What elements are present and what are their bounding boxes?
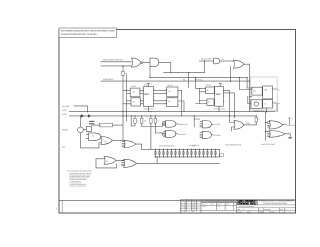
rev table text [181,200,196,213]
wire u6-u7 d [154,103,167,105]
svg-text:25000080 WITH ARTWORK REV C OR: 25000080 WITH ARTWORK REV C OR HIGHER [61,33,97,36]
wire u10 left [247,88,252,104]
svg-text:RD CLK 7474: RD CLK 7474 [144,107,154,110]
svg-text:J SMITH: J SMITH [202,206,207,208]
wire u11 right stub [273,89,278,112]
U10 pin ticks [251,90,263,93]
svg-text:4402: 4402 [184,211,187,213]
rev table rows [181,202,296,211]
rev table col c [195,200,197,211]
wire U23 inputs [230,116,235,131]
svg-text:CHK BY: CHK BY [217,203,222,205]
OR gate U16 [124,141,136,148]
wire u7 right drop [178,90,184,116]
title strip line [59,200,296,202]
svg-text:9-3-76: 9-3-76 [192,209,196,211]
AND gate U3 [214,58,220,64]
wire u6-u7 a [154,89,167,91]
title col divider 1 [200,200,202,213]
network bottom rail [155,156,220,158]
dark text blobs in big ICs [144,93,221,96]
transistor Q1 [78,127,84,133]
power stub U9 [219,84,221,87]
wire WRITE PROTECT input [101,61,132,63]
wire U23 out [244,124,256,126]
wire x247 drop [246,78,248,88]
OR gate U17 [104,157,116,165]
svg-text:C: C [181,207,182,209]
svg-text:4122: 4122 [184,205,187,207]
wire x239 drop [239,78,252,90]
svg-text:9602: 9602 [144,93,150,96]
component box R9 [87,126,92,131]
wire U21 out [211,123,213,125]
field texts [237,208,287,214]
svg-text:9602: 9602 [216,93,222,96]
AND gate U2 [150,58,159,67]
wire U17 out [116,159,124,161]
svg-text:4316: 4316 [184,209,187,211]
svg-text:DATA SEPARATOR: DATA SEPARATOR [263,202,288,205]
wire U4 lower input [230,67,232,82]
AND gate U22 [202,131,211,138]
IC U10 [252,87,262,95]
wire into network [142,148,155,150]
field dividers [258,208,284,213]
wire u5-u6 b [140,93,144,95]
wire u6 bottom drop [147,106,149,111]
NAND gate U24 [269,121,283,129]
resistor R11 [134,118,136,123]
wire u5-u6 a [140,89,144,91]
ground term [288,138,292,139]
resistor R5 [122,71,125,75]
network right label box [220,154,224,157]
svg-text:LOGIC UNIT 2 SCHEMATIC: LOGIC UNIT 2 SCHEMATIC [259,200,294,203]
resistor R10 [99,123,112,127]
diode CR1 [80,115,84,118]
bus y111.7 [69,111,275,113]
diode CR2 [88,115,92,118]
VCO module outline [250,77,277,110]
U6 pin ticks [142,89,154,102]
svg-text:(NOT) TEST POINT: (NOT) TEST POINT [261,143,275,146]
svg-text:DATA SEPARATOR 9C: DATA SEPARATOR 9C [159,145,176,148]
svg-text:7-1-76: 7-1-76 [192,207,196,209]
svg-text:THIS SCHEMATIC DIAGRAM APPLIES: THIS SCHEMATIC DIAGRAM APPLIES TO UNITS … [61,30,116,33]
wire u6-u7 b [154,93,167,95]
signal labels top left [62,58,211,116]
svg-text:+SEP CLK: +SEP CLK [195,78,204,81]
wire U14 inputs [86,134,88,138]
svg-text:WR CLK 7474: WR CLK 7474 [215,107,225,110]
svg-text:+VFO: +VFO [62,109,67,112]
feedback loop wire [96,159,116,168]
resistor R8 [90,121,95,124]
svg-text:+WRT DATA: +WRT DATA [287,124,297,127]
svg-text:10-75: 10-75 [217,206,220,208]
bus y77.6 [150,77,247,79]
wire gateH inputs [142,122,166,135]
wire R15 v [255,116,257,125]
resistor pack bodies [155,152,217,155]
wire R11 v [131,116,135,126]
U22 pin marks [200,132,202,137]
svg-text:DATE: DATE [211,203,214,205]
svg-text:+5V 14 7438: +5V 14 7438 [201,58,211,61]
wire x188 drop [188,73,190,88]
header cells line [201,205,237,207]
svg-text:D: D [181,209,182,211]
U18 pin hatches [122,161,125,166]
bus y72.7 [164,72,205,74]
svg-text:DUCED OR COPIED OR USED AS BAS: DUCED OR COPIED OR USED AS BASIS FOR MAN… [202,202,236,204]
wire U24 inputs [266,122,268,131]
legal band bottom line [201,202,237,204]
OR gate U23 [234,121,244,130]
NOR gate U1 [132,58,142,67]
flip-flop U7B [167,98,178,107]
resistor R13 [150,118,152,123]
wire x123 lower [123,116,127,140]
svg-text:-DATA SEL(J): -DATA SEL(J) [103,78,114,81]
rev table col b [191,200,193,211]
svg-text:4201: 4201 [184,207,187,209]
wire vertical x204.4 [203,61,205,73]
U25 pin hatches [267,132,269,137]
wire x199 pin column [198,89,200,104]
wire U3 input [199,60,213,62]
wire R12 v [141,116,143,127]
notes text block [67,170,93,188]
wire U3 out [220,60,233,62]
U19 pin marks [164,122,166,126]
logo bottom line [237,204,296,206]
wire u5b-u6 a [141,100,144,102]
svg-text:C11: C11 [253,90,256,93]
wire u12 bottom [266,108,268,112]
svg-text:74LS74: 74LS74 [131,85,137,88]
wire U16 out [136,144,142,149]
wire u9 bottom drop [218,106,220,112]
svg-text:74LS74: 74LS74 [206,84,212,87]
svg-text:+DATA SEPARATOR (2): +DATA SEPARATOR (2) [225,143,242,146]
wire u5b-u6 b [141,103,144,105]
logo cell divider [236,200,238,213]
IC U9 [215,86,224,106]
title col divider 4 [233,203,235,211]
AND gate U20 [166,130,176,137]
AND gate U19 [166,120,176,127]
zone tick [61,201,63,213]
svg-text:74LS74: 74LS74 [167,84,173,87]
AND gate U21 [202,121,211,128]
wire gate2 bottom drop [149,67,151,78]
wire R14 v [155,116,162,133]
wire input 2 [101,65,132,67]
resistor R12 [141,118,143,123]
wire Q1 emitter [81,133,101,148]
svg-text:U30: U30 [264,89,267,92]
IC U11 [263,86,273,99]
wire x265 drop [265,112,267,141]
note box text [61,30,116,36]
svg-text:TP6: TP6 [62,146,65,149]
power stub U6 [147,84,149,87]
wire R10 right [113,124,124,126]
U24 pin hatches [267,122,269,127]
wire left stub [74,106,88,112]
svg-text:2N3906: 2N3906 [62,129,68,132]
svg-text:Y1: Y1 [264,103,266,106]
wire U24 out [283,124,287,126]
wire vertical x126.7 [126,75,128,116]
svg-text:+B CNTRL: +B CNTRL [213,134,221,137]
svg-text:11-76: 11-76 [192,211,195,213]
network junction dots [80,111,267,157]
oscillator U12 [251,100,262,109]
title col divider 3 [224,203,226,211]
Shugart logo [237,200,256,205]
svg-text:+A CNTRL: +A CNTRL [213,123,220,126]
resistor R14 [154,118,156,123]
svg-text:DR BY: DR BY [202,203,206,205]
svg-text:-PLL REF: -PLL REF [62,105,70,108]
wire x195.7 drop [195,78,197,88]
U5A pin ticks [129,90,141,93]
wire u6-u7 c [154,100,167,102]
resistor pack elements [156,149,220,157]
wire U1 out [143,62,150,64]
fields row line [237,207,296,209]
OR gate U4 [234,60,245,68]
wire Q1 base [83,129,86,131]
AND gate U14 [89,133,101,141]
flip-flop U7A [167,87,178,97]
wire network drop [156,157,158,163]
border frame [59,30,296,214]
wire U4 out [244,64,249,112]
header cell labels [202,203,229,208]
title block outline [181,200,296,213]
wire x131 drop [130,116,132,126]
title area divider [256,200,258,205]
resistor R15 [255,118,258,123]
bus y115.9 [69,115,256,117]
svg-text:MISSING CLK: MISSING CLK [178,123,189,126]
wire U19 out [176,123,178,125]
transistor labels [62,124,108,163]
wire u9 right stubs [223,91,234,116]
svg-text:12: 12 [222,58,224,61]
svg-text:MC4024 VCO: MC4024 VCO [254,110,265,113]
U21 pin marks [200,122,202,127]
wire U25 out [285,134,290,138]
svg-text:9024: 9024 [144,84,148,87]
OR gate U18 [124,159,137,167]
svg-text:DATE: DATE [192,200,195,202]
svg-text:4-8-76: 4-8-76 [192,202,196,204]
wire u8 left pins [196,89,207,104]
svg-text:WRITE PROT +WRT SEL: WRITE PROT +WRT SEL [103,59,123,62]
svg-text:REV: REV [181,200,184,202]
title col divider 2 [215,203,217,211]
U9 pin ticks [214,89,225,104]
OR gate U15 [101,137,113,145]
flip-flop U5A [130,88,140,97]
legal text band [201,200,236,203]
title text [259,200,294,206]
U7 pin ticks [166,90,179,105]
U16 pin hatches [122,142,125,147]
wire U18 out long [136,162,219,164]
svg-text:4085: 4085 [184,202,187,204]
rev table col a [185,200,187,211]
wire Q1 collector [80,116,82,127]
flip-flop U8B [207,99,214,106]
network top rail [155,148,220,150]
wire u5 left pins [123,90,131,104]
junction dots [87,60,266,112]
flip-flop U8A [206,87,215,94]
svg-text:+VCO: +VCO [62,113,67,116]
wire U20 out [176,133,178,135]
note box [59,28,117,38]
NAND gate U25 [269,131,285,138]
power stub [289,118,291,125]
svg-text:7438: 7438 [246,122,250,125]
bus y81 DATA [101,80,249,82]
svg-text:APPD: APPD [226,203,229,205]
wire U15 out [112,139,124,141]
flip-flop U5B [131,98,141,106]
wire R13 v [150,116,152,149]
svg-text:+WR GATE: +WR GATE [178,133,187,136]
svg-text:5-2-76: 5-2-76 [192,205,196,207]
wire R10 left [92,124,100,126]
IC U13 [263,100,273,109]
U20 pin marks [164,132,166,137]
IC U6 [143,87,153,107]
wire x194 drop [194,116,200,127]
U13 pin ticks [262,102,273,106]
mid labels [125,72,296,147]
cluster labels [131,58,268,113]
wire vertical x123 [122,66,124,116]
wire U2 out [159,63,171,73]
wire U22 out [211,134,213,136]
